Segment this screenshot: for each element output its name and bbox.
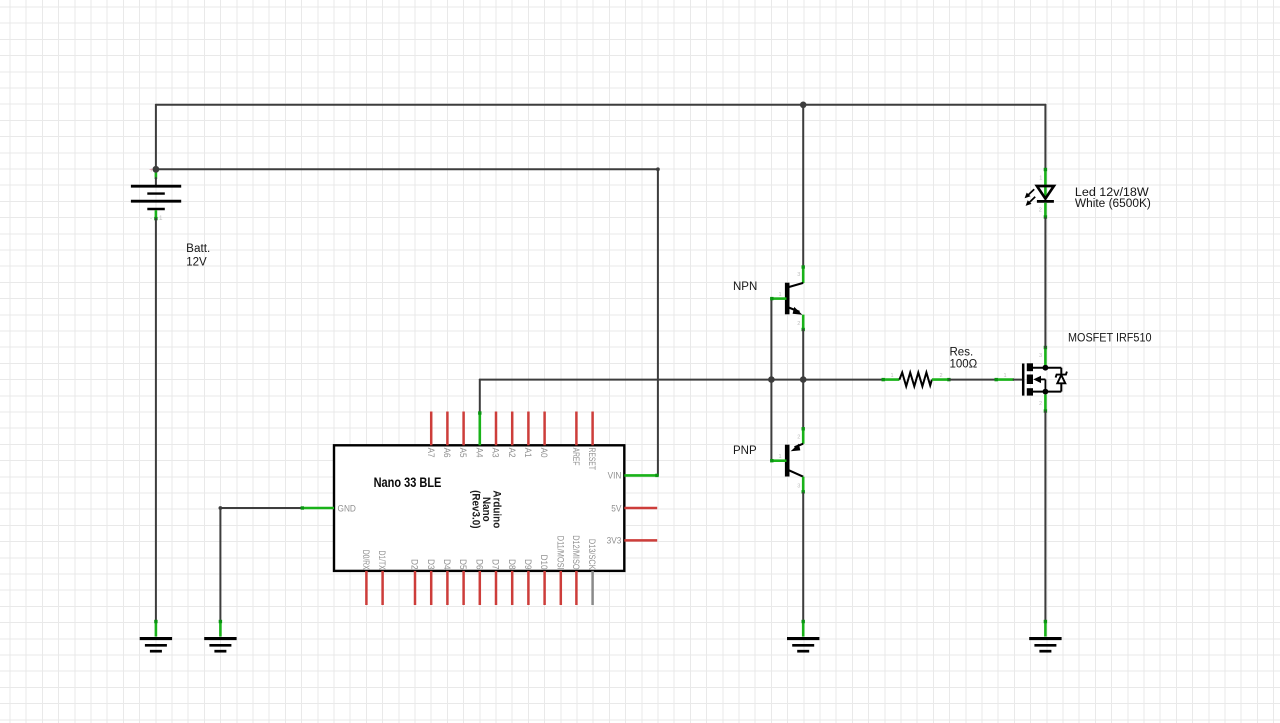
wire LED cathode to MOSFET drain bbox=[1044, 218, 1046, 348]
pin A1 bbox=[527, 412, 530, 446]
wire ground lead 2 bbox=[219, 620, 222, 637]
svg-text:RESET: RESET bbox=[587, 448, 597, 470]
svg-text:D11/MOSI: D11/MOSI bbox=[555, 536, 566, 570]
svg-text:A4: A4 bbox=[474, 448, 485, 458]
pin D2 bbox=[414, 571, 417, 605]
resistor R1 100ohm bbox=[882, 373, 951, 387]
arduino bottom pins D0..D13 bbox=[366, 571, 592, 605]
wire junction to PNP emitter bbox=[802, 380, 804, 429]
svg-text:A6: A6 bbox=[442, 448, 453, 458]
arduino top pin labels bbox=[426, 448, 598, 470]
svg-text:D2: D2 bbox=[409, 559, 420, 570]
svg-text:D3: D3 bbox=[426, 559, 437, 570]
pin D8 bbox=[511, 571, 514, 605]
svg-text:2: 2 bbox=[797, 321, 800, 327]
wire NPN emitter to junction bbox=[802, 330, 804, 380]
svg-text:D0/RX: D0/RX bbox=[361, 550, 371, 570]
svg-text:-: - bbox=[150, 215, 152, 222]
wire MOSFET source to ground bbox=[1044, 412, 1047, 637]
svg-text:+: + bbox=[149, 167, 153, 174]
svg-text:A1: A1 bbox=[523, 448, 534, 458]
label NPN bbox=[733, 281, 757, 293]
label PNP bbox=[733, 445, 757, 457]
label Led 12v/18W White (6500K) bbox=[1075, 187, 1151, 210]
svg-text:2: 2 bbox=[1039, 401, 1042, 407]
ground MOSFET bbox=[1029, 639, 1061, 652]
pin A7 bbox=[430, 412, 433, 446]
pin 2 source green bbox=[1044, 395, 1047, 413]
wire base column bbox=[770, 299, 772, 461]
wire arduino GND to ground bbox=[219, 506, 302, 621]
svg-text:3V3: 3V3 bbox=[607, 535, 622, 546]
svg-text:D1/TX: D1/TX bbox=[377, 551, 387, 571]
led D1 12v/18W bbox=[1025, 168, 1054, 219]
svg-text:1: 1 bbox=[779, 292, 782, 298]
pin 5V bbox=[611, 503, 657, 514]
pin VIN (right, green) bbox=[608, 470, 659, 481]
svg-text:VIN: VIN bbox=[608, 470, 622, 481]
svg-text:A2: A2 bbox=[507, 448, 518, 458]
svg-text:D10: D10 bbox=[539, 555, 550, 570]
pin AREF bbox=[575, 412, 578, 446]
wire resistor to gate bbox=[949, 379, 996, 381]
svg-text:D13/SCK: D13/SCK bbox=[587, 539, 598, 570]
transistor Q2 PNP bbox=[770, 427, 805, 493]
svg-text:Nano 33 BLE: Nano 33 BLE bbox=[374, 475, 442, 490]
body diode of MOSFET bbox=[1060, 368, 1062, 375]
arduino bottom pin labels bbox=[361, 535, 598, 570]
wire battery to ground bbox=[154, 219, 157, 637]
svg-text:GND: GND bbox=[338, 503, 356, 514]
pin D7 bbox=[495, 571, 498, 605]
transistor U2 MOSFET IRF510 bbox=[995, 346, 1067, 413]
svg-text:12V: 12V bbox=[186, 257, 207, 269]
pin A5 bbox=[462, 412, 465, 446]
wire A4 to transistor bases rail bbox=[480, 380, 772, 413]
svg-text:D8: D8 bbox=[507, 559, 518, 570]
svg-text:NPN: NPN bbox=[733, 281, 757, 293]
arduino top pins A7..RESET bbox=[431, 411, 592, 445]
svg-text:1: 1 bbox=[159, 215, 163, 222]
svg-text:D12/MISO: D12/MISO bbox=[571, 535, 582, 570]
wire rail to resistor bbox=[771, 379, 882, 381]
svg-text:D9: D9 bbox=[523, 559, 534, 570]
svg-text:A7: A7 bbox=[426, 448, 437, 458]
transistor Q1 NPN bbox=[770, 265, 805, 331]
svg-text:Batt.: Batt. bbox=[186, 243, 210, 255]
svg-text:3: 3 bbox=[797, 272, 800, 278]
pin D12/MISO bbox=[575, 571, 578, 605]
pin D3 bbox=[430, 571, 433, 605]
label Batt. 12V bbox=[186, 243, 210, 269]
pin D10 bbox=[543, 571, 546, 605]
pin 3V3 bbox=[607, 535, 658, 546]
svg-text:MOSFET IRF510: MOSFET IRF510 bbox=[1068, 333, 1152, 345]
svg-text:White (6500K): White (6500K) bbox=[1075, 198, 1151, 210]
svg-text:1: 1 bbox=[891, 373, 894, 379]
pin A6 bbox=[446, 412, 449, 446]
label MOSFET IRF510 bbox=[1068, 333, 1152, 345]
node rail junction right bbox=[800, 376, 807, 383]
node battery positive junction bbox=[149, 166, 159, 174]
svg-text:100Ω: 100Ω bbox=[950, 358, 978, 370]
pin RESET bbox=[591, 412, 594, 446]
ground transistor branch bbox=[787, 639, 819, 652]
svg-text:AREF: AREF bbox=[571, 448, 581, 466]
ground arduino bbox=[204, 639, 236, 652]
svg-text:5V: 5V bbox=[611, 503, 621, 514]
svg-text:D6: D6 bbox=[474, 559, 485, 570]
svg-text:A5: A5 bbox=[458, 448, 469, 458]
svg-text:3: 3 bbox=[1039, 353, 1042, 359]
node junction top rail to transistor branch bbox=[800, 102, 807, 109]
battery Batt. 12V bbox=[131, 167, 181, 222]
svg-text:3: 3 bbox=[797, 484, 800, 490]
svg-text:1: 1 bbox=[1039, 176, 1042, 182]
wire NPN collector from top junction bbox=[802, 105, 804, 267]
pin D4 bbox=[446, 571, 449, 605]
pin A2 bbox=[511, 412, 514, 446]
pin D9 bbox=[527, 571, 530, 605]
svg-text:PNP: PNP bbox=[733, 445, 757, 457]
wire top +12V rail bbox=[156, 105, 1046, 169]
svg-text:1: 1 bbox=[1004, 373, 1007, 379]
svg-text:D5: D5 bbox=[458, 559, 469, 570]
led light arrows bbox=[1028, 189, 1035, 195]
pin D1/TX bbox=[381, 571, 384, 605]
pin 3 drain green bbox=[1044, 346, 1047, 365]
svg-text:D7: D7 bbox=[490, 559, 501, 570]
pin A3 bbox=[495, 412, 498, 446]
svg-text:A3: A3 bbox=[490, 448, 501, 458]
label Res. 100 ohm bbox=[950, 347, 978, 371]
svg-text:2: 2 bbox=[940, 373, 943, 379]
pin GND (left, green) bbox=[301, 503, 356, 514]
wire battery+ to VIN bbox=[156, 167, 660, 475]
ground battery bbox=[140, 639, 172, 652]
pin D6 bbox=[479, 571, 482, 605]
pin D13/SCK bbox=[591, 571, 594, 605]
pin D11/MOSI bbox=[560, 571, 563, 605]
svg-text:1: 1 bbox=[779, 454, 782, 460]
pin D5 bbox=[462, 571, 465, 605]
wire PNP collector to ground bbox=[802, 493, 805, 637]
svg-text:Res.: Res. bbox=[950, 347, 974, 359]
pin D0/RX bbox=[365, 571, 368, 605]
pin A0 bbox=[543, 412, 546, 446]
node rail junction left bbox=[768, 376, 775, 383]
pin A4 (connected, green) bbox=[478, 412, 481, 446]
svg-text:A0: A0 bbox=[539, 448, 550, 458]
svg-text:2: 2 bbox=[1039, 208, 1042, 214]
svg-text:2: 2 bbox=[797, 435, 800, 441]
svg-text:D4: D4 bbox=[442, 559, 453, 570]
ic U1 Arduino Nano 33 BLE bbox=[334, 445, 624, 571]
